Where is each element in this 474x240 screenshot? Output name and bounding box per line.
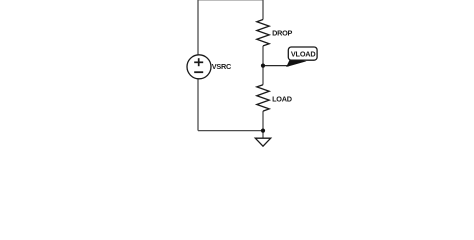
wire between resistors <box>262 46 264 85</box>
wire top horizontal <box>198 0 263 1</box>
svg-text:LOAD: LOAD <box>272 94 292 103</box>
wire below LOAD <box>262 111 264 131</box>
svg-text:VLOAD: VLOAD <box>291 49 316 58</box>
junction node between DROP and LOAD <box>261 64 265 68</box>
resistor R LOAD <box>257 85 269 111</box>
net flag pointer wedge <box>286 58 306 67</box>
resistor R DROP <box>257 20 269 46</box>
wire left vertical lower <box>197 79 199 131</box>
wire VLOAD tap <box>263 65 289 67</box>
net flag VLOAD box <box>288 47 317 60</box>
wire ground stub <box>262 131 264 139</box>
voltage source VSRC <box>187 55 211 79</box>
wire bottom horizontal <box>198 130 263 132</box>
wire right vertical top <box>262 0 264 19</box>
svg-text:DROP: DROP <box>272 29 292 38</box>
ground <box>255 138 270 146</box>
svg-text:VSRC: VSRC <box>212 62 232 71</box>
wire left vertical upper <box>197 0 199 55</box>
junction node at bottom <box>261 129 265 133</box>
